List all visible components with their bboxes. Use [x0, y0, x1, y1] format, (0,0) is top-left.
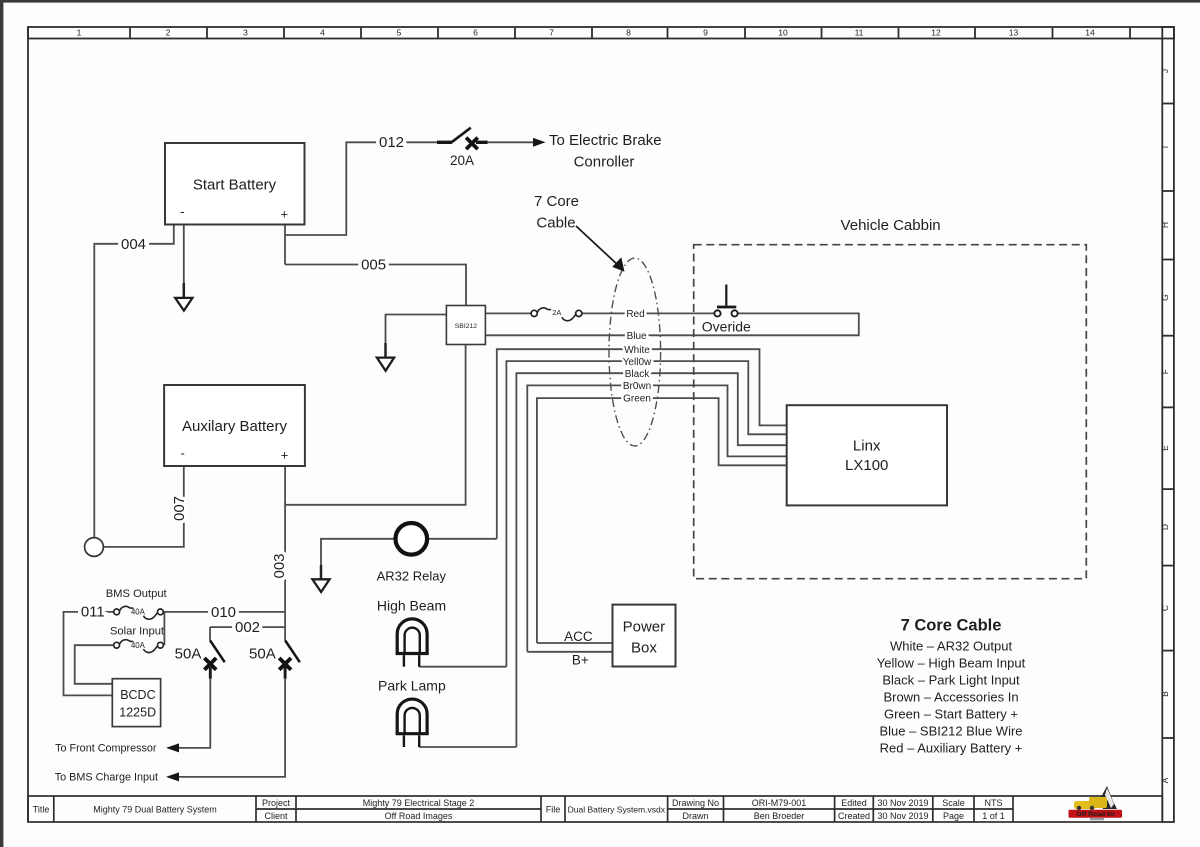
svg-text:Power: Power	[623, 619, 666, 636]
svg-text:1: 1	[77, 28, 82, 38]
svg-text:B: B	[1160, 691, 1170, 697]
svg-text:2: 2	[166, 28, 171, 38]
wire white run	[497, 349, 787, 539]
wire green run	[537, 398, 787, 643]
SBI212 left wire	[386, 315, 447, 350]
logo off road images	[1069, 786, 1123, 820]
svg-text:BMS Output: BMS Output	[106, 588, 168, 600]
wire 011 run	[64, 612, 114, 696]
svg-text:007: 007	[171, 496, 188, 521]
svg-text:7 Core Cable: 7 Core Cable	[901, 617, 1002, 635]
svg-text:004: 004	[121, 236, 146, 253]
svg-text:Off Road Im: Off Road Im	[1076, 811, 1115, 818]
svg-text:Ben Broeder: Ben Broeder	[754, 811, 805, 821]
svg-text:Red: Red	[626, 309, 644, 320]
wire brown to power box B+	[527, 651, 612, 653]
breaker 20A lead thick left	[437, 141, 452, 144]
svg-text:Mighty 79 Electrical Stage 2: Mighty 79 Electrical Stage 2	[363, 798, 475, 808]
svg-text:G: G	[1160, 294, 1170, 301]
svg-text:C: C	[1160, 605, 1170, 611]
top ruler band	[28, 27, 1174, 39]
wire red fuse to overide	[582, 312, 715, 314]
svg-text:Black: Black	[625, 369, 650, 380]
svg-text:E: E	[1160, 445, 1170, 451]
svg-text:Scale: Scale	[942, 798, 965, 808]
Linx LX100 box	[787, 405, 947, 505]
svg-text:White: White	[624, 345, 650, 356]
breaker 20A lead thick right	[476, 141, 488, 144]
svg-text:002: 002	[235, 619, 260, 636]
svg-text:-: -	[181, 446, 185, 461]
wire black run	[516, 373, 786, 747]
svg-text:2A: 2A	[552, 308, 561, 317]
svg-text:005: 005	[361, 257, 386, 274]
svg-text:Park Lamp: Park Lamp	[378, 677, 446, 693]
svg-text:Box: Box	[631, 639, 657, 656]
power box	[613, 605, 676, 667]
high beam lamp	[377, 598, 446, 667]
svg-text:-: -	[180, 204, 184, 219]
arrow to BMS charge input	[166, 772, 179, 781]
svg-text:50A: 50A	[249, 646, 276, 663]
svg-text:Blue – SBI212 Blue Wire: Blue – SBI212 Blue Wire	[879, 724, 1022, 739]
page top edge	[0, 0, 1200, 3]
wire 012 run	[285, 142, 452, 235]
svg-text:ORI-M79-001: ORI-M79-001	[752, 798, 807, 808]
wire 004 run	[94, 225, 174, 538]
svg-text:I: I	[1160, 146, 1170, 148]
svg-text:40A: 40A	[131, 641, 146, 650]
wire solar fuse join vertical	[163, 612, 165, 645]
svg-text:Black – Park Light Input: Black – Park Light Input	[882, 673, 1020, 688]
wire black to park lamp	[419, 746, 516, 748]
7 core cable ellipse	[609, 258, 661, 446]
ruler numbers	[77, 28, 1095, 38]
svg-text:Dual Battery System.vsdx: Dual Battery System.vsdx	[568, 804, 666, 814]
breaker 50A right	[249, 640, 300, 679]
svg-text:B+: B+	[572, 652, 589, 667]
svg-text:Off Road Images: Off Road Images	[385, 811, 453, 821]
svg-text:ACC: ACC	[564, 629, 593, 644]
wire brown run	[527, 385, 786, 651]
breaker 20A X mark	[466, 138, 478, 150]
svg-text:1 of 1: 1 of 1	[982, 811, 1005, 821]
start battery plus stub wire	[284, 225, 286, 265]
wire blue overide loop	[485, 313, 858, 335]
svg-text:Page: Page	[943, 811, 964, 821]
svg-text:011: 011	[81, 604, 105, 621]
ruler letters	[1160, 69, 1170, 783]
svg-text:Yell0w: Yell0w	[623, 357, 652, 368]
wire white to relay	[428, 538, 497, 540]
title block	[28, 796, 1162, 822]
svg-text:012: 012	[379, 134, 404, 151]
svg-text:High Beam: High Beam	[377, 598, 446, 614]
fuse 2A	[531, 308, 582, 321]
start battery ground stub wire	[183, 225, 185, 290]
svg-text:Client: Client	[264, 811, 288, 821]
svg-text:9: 9	[703, 28, 708, 38]
svg-text:010: 010	[211, 604, 236, 621]
breaker 50A left	[175, 640, 225, 679]
svg-text:Vehicle Cabbin: Vehicle Cabbin	[841, 217, 941, 234]
svg-text:Project: Project	[262, 798, 291, 808]
wire aux plus to SBI212 bottom	[285, 345, 466, 505]
breaker 20A blade	[452, 128, 471, 143]
svg-text:File: File	[546, 804, 561, 814]
svg-text:SBI212: SBI212	[455, 323, 478, 330]
svg-text:Solar Input: Solar Input	[110, 625, 165, 637]
aux battery plus stub	[284, 466, 286, 505]
wire yellow to high beam	[419, 666, 506, 668]
svg-text:To Electric Brake: To Electric Brake	[549, 132, 662, 149]
wire 012 segment to arrow	[476, 141, 534, 143]
svg-text:40A: 40A	[131, 608, 146, 617]
BCDC 1225D box	[112, 679, 160, 727]
7 core cable legend	[877, 617, 1026, 756]
park lamp	[378, 677, 446, 747]
svg-text:1225D: 1225D	[119, 705, 156, 719]
svg-text:White – AR32 Output: White – AR32 Output	[890, 639, 1013, 654]
svg-text:Linx: Linx	[853, 438, 881, 455]
svg-text:003: 003	[271, 553, 288, 578]
svg-text:50A: 50A	[175, 646, 202, 663]
right letter ruler column	[1162, 27, 1174, 822]
svg-text:Title: Title	[33, 804, 50, 814]
svg-text:8: 8	[626, 28, 631, 38]
fuse 40A solar	[114, 640, 164, 653]
page left edge	[0, 0, 3, 847]
svg-text:Brown – Accessories In: Brown – Accessories In	[883, 690, 1018, 705]
wire 010 run	[163, 611, 285, 613]
svg-text:10: 10	[778, 28, 788, 38]
svg-text:30 Nov 2019: 30 Nov 2019	[877, 798, 928, 808]
aux battery	[164, 385, 305, 466]
svg-text:H: H	[1160, 222, 1170, 228]
vehicle cabbin dashed box	[694, 245, 1087, 579]
arrow 7 core cable	[576, 226, 625, 272]
svg-text:+: +	[281, 207, 289, 222]
svg-text:3: 3	[243, 28, 248, 38]
svg-text:13: 13	[1009, 28, 1019, 38]
wire yellow run	[506, 361, 786, 667]
svg-text:4: 4	[320, 28, 325, 38]
frame left border	[27, 27, 29, 822]
wire 007 run	[103, 466, 183, 547]
svg-text:D: D	[1160, 524, 1170, 530]
wire 002 run	[210, 626, 285, 628]
wire solar input left run	[75, 645, 114, 684]
svg-text:Start Battery: Start Battery	[193, 177, 277, 194]
svg-text:12: 12	[931, 28, 941, 38]
svg-text:Overide: Overide	[702, 319, 751, 335]
svg-text:Green – Start Battery +: Green – Start Battery +	[884, 707, 1018, 722]
start battery	[165, 143, 305, 225]
svg-text:Red – Auxiliary Battery +: Red – Auxiliary Battery +	[880, 741, 1023, 756]
AR32 relay circle	[396, 523, 428, 555]
breaker 50A left lower wire	[178, 679, 210, 748]
svg-text:Drawing No: Drawing No	[672, 798, 719, 808]
svg-text:To BMS Charge Input: To BMS Charge Input	[55, 772, 158, 784]
wire 003 run	[284, 505, 286, 641]
wire green to power box ACC	[537, 642, 613, 644]
wire red SBI to fuse	[485, 312, 531, 314]
terminal circle	[85, 538, 104, 557]
svg-text:30 Nov 2019: 30 Nov 2019	[877, 811, 928, 821]
SBI212 box	[446, 306, 485, 345]
ruler divisions	[129, 27, 131, 39]
svg-text:5: 5	[397, 28, 402, 38]
svg-text:To Front Compressor: To Front Compressor	[55, 743, 157, 755]
svg-text:11: 11	[855, 28, 864, 38]
svg-text:20A: 20A	[450, 153, 474, 168]
svg-text:Yellow – High Beam Input: Yellow – High Beam Input	[877, 656, 1026, 671]
svg-text:+: +	[281, 448, 289, 463]
svg-text:Edited: Edited	[841, 798, 867, 808]
svg-text:7 Core: 7 Core	[534, 193, 579, 210]
svg-text:6: 6	[473, 28, 478, 38]
svg-text:J: J	[1160, 69, 1170, 73]
svg-text:Br0wn: Br0wn	[623, 381, 651, 392]
svg-text:7: 7	[549, 28, 554, 38]
svg-text:LX100: LX100	[845, 457, 888, 474]
svg-text:A: A	[1160, 777, 1170, 783]
arrow to front compressor	[166, 743, 179, 752]
arrow to electric brake controller	[533, 138, 546, 147]
svg-text:BCDC: BCDC	[120, 688, 155, 702]
ground under SBI212 wire	[377, 343, 394, 371]
svg-text:Mighty 79 Dual Battery System: Mighty 79 Dual Battery System	[93, 804, 217, 814]
relay left wire to ground	[321, 539, 394, 571]
svg-text:14: 14	[1085, 28, 1095, 38]
svg-text:AR32 Relay: AR32 Relay	[377, 569, 447, 584]
overide switch	[714, 285, 737, 317]
breaker 50A right lower wire	[178, 679, 285, 777]
fuse 40A BMS	[114, 606, 164, 619]
svg-text:Cable: Cable	[536, 215, 575, 232]
svg-text:Created: Created	[838, 811, 870, 821]
svg-text:Green: Green	[623, 394, 651, 405]
ground left of AR32 relay	[312, 565, 329, 592]
ground under start battery	[175, 283, 192, 311]
svg-text:Blue: Blue	[627, 331, 647, 342]
svg-text:Conroller: Conroller	[574, 153, 635, 170]
svg-text:Drawn: Drawn	[682, 811, 708, 821]
svg-text:NTS: NTS	[985, 798, 1003, 808]
wire 005 run	[285, 265, 466, 306]
svg-text:Auxilary Battery: Auxilary Battery	[182, 418, 288, 435]
svg-text:F: F	[1160, 369, 1170, 374]
